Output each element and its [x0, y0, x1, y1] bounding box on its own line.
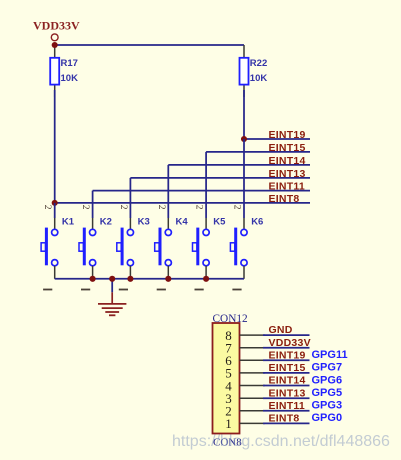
pin 1 (K3): [119, 289, 128, 291]
svg-text:GPG5: GPG5: [312, 387, 343, 399]
wire K3 bottom: [129, 266, 131, 279]
junction VDD node: [52, 42, 58, 48]
junction EINT19 node: [241, 136, 247, 142]
pin 3 wire (CON12): [240, 397, 266, 399]
resistor R22: [240, 58, 249, 97]
switch K4: [155, 228, 172, 266]
svg-text:1: 1: [225, 416, 232, 431]
junction K4 bottom: [165, 276, 171, 282]
svg-text:EINT8: EINT8: [269, 413, 300, 425]
pin 8 wire (CON12): [240, 334, 266, 336]
wire K1 top: [54, 203, 56, 230]
svg-text:2: 2: [80, 205, 90, 210]
wire K2 bottom: [92, 266, 94, 279]
svg-text:2: 2: [42, 205, 52, 210]
junction K2 bottom: [90, 276, 96, 282]
net EINT14 wire: [168, 164, 310, 166]
svg-text:GPG3: GPG3: [312, 400, 343, 412]
wire K4 top: [167, 165, 169, 230]
pin 4 wire (CON12): [240, 385, 266, 387]
svg-text:R22: R22: [250, 58, 267, 69]
svg-text:K6: K6: [251, 217, 263, 228]
wire VDD to R22: [243, 45, 245, 58]
svg-text:EINT14: EINT14: [269, 155, 306, 167]
pin 1 (K2): [81, 289, 90, 291]
pin 6 wire (CON12): [240, 359, 266, 361]
net EINT11 wire: [93, 190, 310, 192]
svg-text:EINT19: EINT19: [269, 129, 306, 141]
pin 2 wire (CON12): [240, 410, 266, 412]
net EINT13 wire: [130, 177, 310, 179]
wire R17 to EINT8 node: [54, 90, 56, 203]
switch K5: [193, 228, 210, 266]
junction ground stem: [109, 276, 115, 282]
switch K6: [230, 228, 247, 266]
switch K1: [41, 228, 58, 266]
svg-text:R17: R17: [61, 58, 78, 69]
ground: [98, 279, 126, 316]
wire K4 bottom: [167, 266, 169, 279]
svg-text:10K: 10K: [61, 73, 79, 84]
svg-text:EINT8: EINT8: [269, 193, 300, 205]
switch K2: [79, 228, 96, 266]
connector CON12: [213, 323, 240, 434]
svg-text:GPG6: GPG6: [312, 374, 343, 386]
wire bottom bus: [55, 278, 244, 280]
junction K5 bottom: [203, 276, 209, 282]
net EINT8 wire: [55, 202, 310, 204]
svg-text:https://blog.csdn.net/dfl44886: https://blog.csdn.net/dfl448866: [172, 433, 390, 450]
svg-text:EINT15: EINT15: [269, 142, 306, 154]
svg-text:EINT19: EINT19: [269, 349, 306, 361]
svg-text:K1: K1: [62, 217, 75, 228]
wire K5 bottom: [205, 266, 207, 279]
svg-text:EINT13: EINT13: [269, 387, 306, 399]
svg-text:GPG7: GPG7: [312, 362, 343, 374]
switch K3: [117, 228, 134, 266]
svg-text:GPG0: GPG0: [312, 412, 343, 424]
svg-text:2: 2: [232, 205, 242, 210]
wire K5 top: [205, 152, 207, 230]
svg-text:EINT11: EINT11: [269, 181, 306, 193]
svg-text:2: 2: [156, 205, 166, 210]
wire K2 top: [92, 191, 94, 230]
junction EINT8 node: [52, 200, 58, 206]
wire K6 top: [243, 139, 245, 229]
wire K1 bottom: [54, 266, 56, 279]
wire R22 to EINT19 node: [243, 90, 245, 139]
svg-text:GND: GND: [269, 324, 293, 336]
net EINT15 wire: [206, 151, 310, 153]
svg-text:VDD33V: VDD33V: [33, 19, 80, 33]
net EINT19 wire: [244, 138, 310, 140]
wire K6 bottom: [243, 266, 245, 279]
wire VDD to R17: [54, 45, 56, 58]
svg-text:EINT11: EINT11: [269, 400, 306, 412]
svg-text:K4: K4: [176, 217, 189, 228]
pin 1 wire (CON12): [240, 422, 266, 424]
svg-text:GPG11: GPG11: [312, 349, 348, 361]
svg-text:VDD33V: VDD33V: [269, 337, 311, 349]
svg-text:2: 2: [194, 205, 204, 210]
pin 1 (K6): [232, 289, 241, 291]
pin 1 (K5): [195, 289, 204, 291]
svg-text:10K: 10K: [250, 73, 268, 84]
svg-text:EINT15: EINT15: [269, 362, 306, 374]
resistor R17: [50, 58, 59, 97]
svg-text:K2: K2: [100, 217, 112, 228]
svg-text:K3: K3: [138, 217, 150, 228]
wire VDD rail horizontal: [55, 44, 244, 46]
wire K3 top: [129, 178, 131, 230]
svg-text:EINT14: EINT14: [269, 375, 306, 387]
svg-text:2: 2: [118, 205, 128, 210]
pin 1 (K1): [43, 289, 52, 291]
pin 1 (K4): [157, 289, 166, 291]
pin 7 wire (CON12): [240, 347, 266, 349]
svg-text:K5: K5: [213, 217, 226, 228]
svg-text:CON12: CON12: [213, 313, 248, 325]
junction K3 bottom: [127, 276, 133, 282]
svg-text:EINT13: EINT13: [269, 168, 306, 180]
pin 5 wire (CON12): [240, 372, 266, 374]
power port VDD33V: [33, 19, 80, 41]
